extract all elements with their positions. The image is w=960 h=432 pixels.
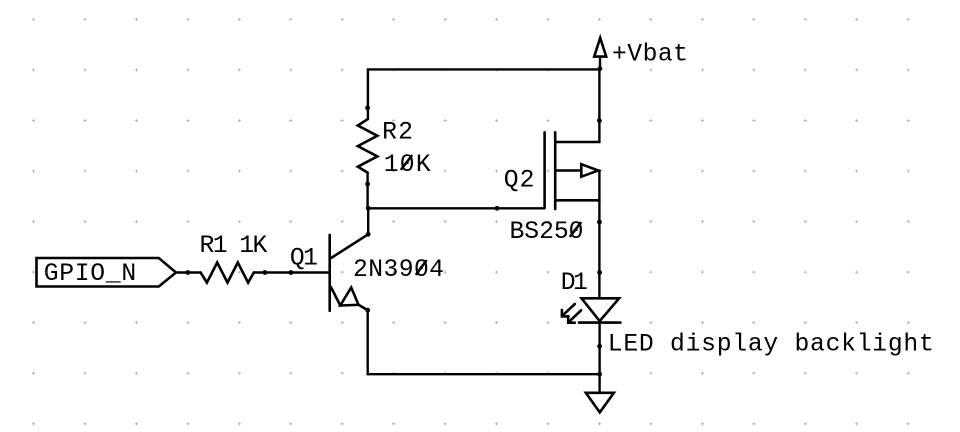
junction dot D1 anode pin [597,270,602,275]
junction dot R2 bottom pin [365,182,370,187]
svg-text:GPIO_N: GPIO_N [44,260,137,288]
wire Q2 source down to LED [598,171,600,299]
svg-text:+Vbat: +Vbat [612,41,688,69]
junction dot Q2 source pin [597,220,602,225]
wire bottom rail [368,373,600,375]
junction dot Q1 emitter pin [365,308,370,313]
junction dot flag pin [185,270,190,275]
svg-text:2N3904: 2N3904 [353,256,444,284]
Q1 emitter arrow [340,288,358,306]
LED D1 light arrow 1 [562,304,575,316]
wire LED cathode down [598,323,600,375]
wire R1 to Q1 base [254,271,329,273]
svg-text:LED display backlight: LED display backlight [608,331,934,359]
transistor Q2 gate bar [543,132,546,207]
Q2 body bar [554,132,557,209]
svg-text:R2: R2 [382,119,413,147]
wire Q1 emitter down [367,310,369,374]
svg-text:Q1: Q1 [290,244,318,272]
ground symbol triangle [586,393,614,413]
Q1 collector diagonal [331,234,368,258]
wire gate node to Q2 gate [368,207,544,209]
LED D1 cathode bar [579,321,620,324]
svg-text:D1: D1 [561,269,588,297]
wire R2 top lead [367,69,369,119]
wire flag tip to R1 [176,271,201,273]
junction dot D1 cathode pin [597,344,602,349]
LED D1 triangle [582,298,620,321]
junction dot R1 right pin [263,270,268,275]
svg-text:10K: 10K [384,151,431,179]
power symbol +Vbat arrow [594,38,606,57]
net label flag GPIO_N [37,258,177,287]
wire top rail [368,68,600,70]
junction dot R2 top pin [365,105,370,110]
Q2 bulk arrow [581,164,598,177]
ground symbol stem [598,374,600,392]
junction dot Vbat pin [598,66,603,71]
wire Q1 collector up to gate node [367,208,369,234]
Q1 emitter diagonal [331,287,341,306]
wire Q2 drain to top rail [598,69,600,142]
resistor R1 [201,263,254,283]
junction dot gate node [366,206,371,211]
transistor Q1 base bar [328,235,331,311]
svg-text:R1 1K: R1 1K [200,232,268,260]
junction dot Q2 gate pin [495,206,500,211]
slashed zero marks [417,261,427,274]
Q2 drain stub [556,141,599,144]
power symbol +Vbat stem [599,57,601,70]
svg-text:Q2: Q2 [504,167,535,195]
Q1 emitter tail [359,305,368,310]
junction dot Q2 drain pin [597,118,602,123]
junction dot Q1 collector pin [366,232,371,237]
Q2 source stub [556,199,599,202]
Q2 bulk line [556,169,581,172]
resistor R2 [358,119,378,172]
LED D1 light arrow 2 [568,310,581,322]
junction dot Q1 base pin [289,270,294,275]
junction dot ground node [597,372,602,377]
wire R2 bottom lead to gate node [366,173,368,209]
